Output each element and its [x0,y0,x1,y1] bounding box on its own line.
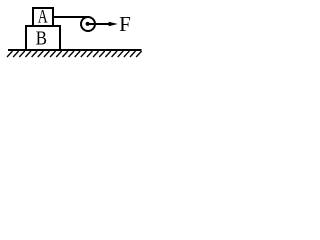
ground line [8,49,142,51]
block B [26,26,60,50]
svg-text:F: F [119,12,131,36]
force arrow shaft [89,23,110,25]
background [0,0,148,63]
force arrowhead [109,22,118,26]
svg-text:A: A [38,8,48,28]
svg-text:B: B [36,28,47,50]
pulley axle dot [86,22,90,26]
wire string from A to pulley [53,16,89,18]
ground hatching [7,51,142,57]
block A [33,8,53,26]
pulley wheel [81,17,95,31]
